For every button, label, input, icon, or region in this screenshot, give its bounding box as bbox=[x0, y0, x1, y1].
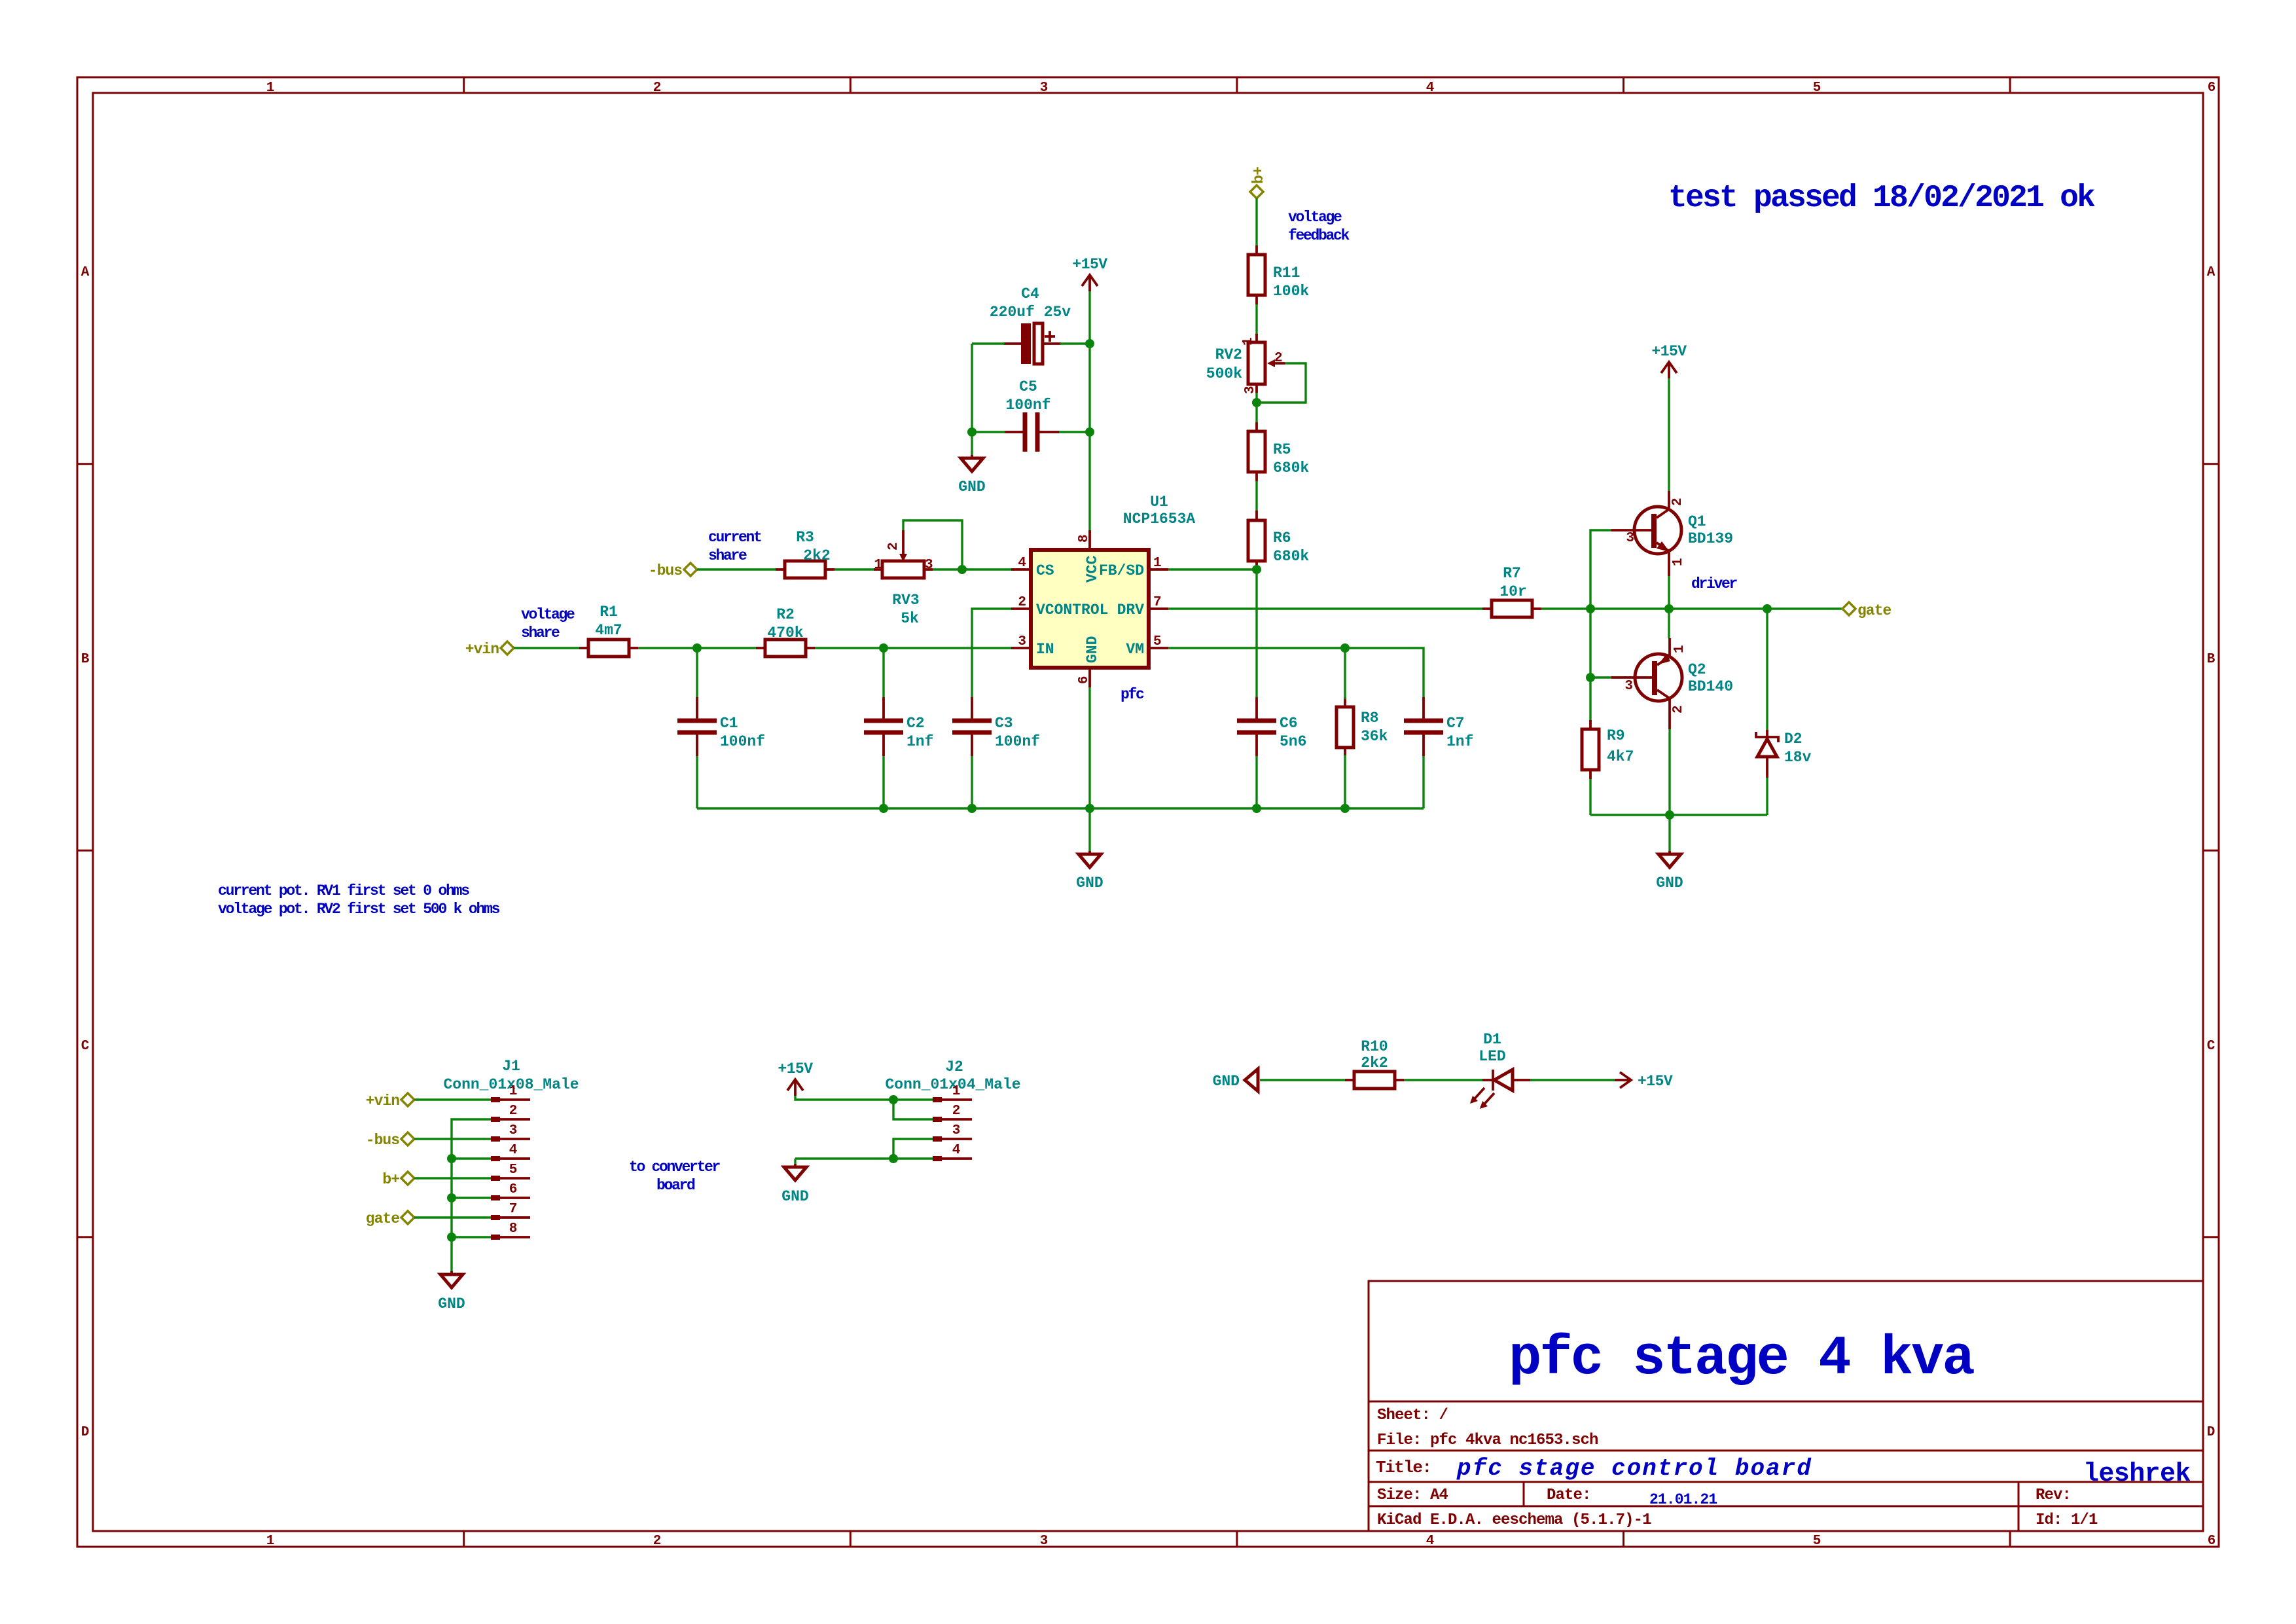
junction C3 bottom bbox=[967, 804, 977, 813]
svg-text:-bus: -bus bbox=[366, 1132, 399, 1149]
svg-text:1: 1 bbox=[1672, 645, 1687, 653]
svg-text:C: C bbox=[81, 1039, 90, 1054]
svg-text:5k: 5k bbox=[901, 610, 919, 627]
ground symbol at J2 bbox=[781, 1164, 808, 1205]
svg-text:Sheet: /: Sheet: / bbox=[1377, 1407, 1448, 1424]
svg-text:2k2: 2k2 bbox=[803, 547, 830, 564]
resistor R9 4k7 bbox=[1582, 720, 1634, 779]
svg-text:b+: b+ bbox=[382, 1171, 399, 1188]
svg-text:5: 5 bbox=[1153, 634, 1162, 649]
svg-text:2: 2 bbox=[1671, 705, 1686, 713]
svg-text:to converter: to converter bbox=[629, 1159, 721, 1176]
wire C1 top lead bbox=[696, 648, 698, 697]
svg-text:C6: C6 bbox=[1280, 715, 1298, 732]
svg-text:B: B bbox=[81, 652, 90, 667]
wire +15V to J2 pin1 bbox=[795, 1096, 933, 1100]
wire RV2 to R5 bbox=[1255, 393, 1257, 422]
svg-text:Rev:: Rev: bbox=[2036, 1487, 2071, 1504]
frame row ticks left bbox=[77, 464, 93, 1237]
ground rail wire bbox=[697, 807, 1424, 809]
junction J2 pin4 bbox=[889, 1154, 898, 1163]
svg-text:BD140: BD140 bbox=[1688, 678, 1733, 695]
svg-text:8: 8 bbox=[1077, 534, 1092, 543]
power symbol +15V right of D1 bbox=[1615, 1072, 1673, 1090]
junction J2 pin1 bbox=[889, 1095, 898, 1104]
svg-text:-bus: -bus bbox=[649, 562, 682, 579]
connector J2 Conn_01x04_Male bbox=[885, 1058, 1020, 1159]
svg-text:VCONTROL: VCONTROL bbox=[1036, 602, 1108, 619]
wire J2 pin2 bbox=[893, 1100, 933, 1119]
svg-text:5: 5 bbox=[1813, 1534, 1821, 1549]
svg-text:3: 3 bbox=[925, 558, 933, 573]
junction Q1 emitter gate bbox=[1664, 604, 1674, 613]
svg-text:C: C bbox=[2207, 1039, 2215, 1054]
resistor R6 680k bbox=[1248, 511, 1309, 569]
ground symbol below U1 bbox=[1076, 851, 1103, 892]
junction driver rail bbox=[1665, 810, 1674, 820]
wire gate line bbox=[1669, 607, 1842, 609]
junction RV2 wiper bbox=[1252, 398, 1261, 407]
svg-text:2: 2 bbox=[952, 1104, 961, 1119]
svg-text:5: 5 bbox=[1813, 81, 1821, 96]
capacitor C3 100nf bbox=[952, 697, 1040, 756]
svg-text:C4: C4 bbox=[1021, 285, 1039, 302]
wire Q2 collector to rail bbox=[1668, 729, 1670, 815]
svg-text:6: 6 bbox=[509, 1182, 518, 1197]
svg-text:R1: R1 bbox=[600, 604, 618, 621]
svg-text:gate: gate bbox=[366, 1210, 399, 1227]
wire rail to GND symbol bbox=[1088, 808, 1090, 851]
wire R8 bottom lead bbox=[1344, 755, 1346, 808]
capacitor C7 1nf bbox=[1404, 697, 1473, 756]
svg-text:680k: 680k bbox=[1273, 460, 1309, 477]
polarized capacitor C4 220uf 25v bbox=[990, 285, 1071, 364]
svg-text:6: 6 bbox=[2208, 1534, 2216, 1549]
global label -bus at J1 bbox=[366, 1132, 414, 1149]
svg-text:voltage: voltage bbox=[521, 606, 575, 623]
svg-text:2: 2 bbox=[509, 1104, 518, 1119]
ground symbol below J1 bbox=[438, 1271, 465, 1312]
junction C5 right bbox=[1085, 427, 1094, 437]
svg-text:C1: C1 bbox=[720, 715, 738, 732]
svg-text:6: 6 bbox=[2208, 81, 2216, 96]
junction C4 right bbox=[1085, 339, 1094, 348]
wire R5 to R6 bbox=[1255, 481, 1257, 511]
junction J1 pin8 bbox=[447, 1233, 456, 1242]
svg-text:D: D bbox=[81, 1425, 90, 1440]
svg-text:3: 3 bbox=[1018, 634, 1026, 649]
svg-text:RV2: RV2 bbox=[1215, 346, 1242, 363]
global label +vin bbox=[465, 641, 514, 658]
svg-text:Date:: Date: bbox=[1547, 1487, 1591, 1504]
svg-text:21.01.21: 21.01.21 bbox=[1649, 1491, 1717, 1508]
wire R7 to bases bbox=[1541, 607, 1669, 609]
wire C7 bottom lead bbox=[1422, 756, 1424, 808]
svg-text:pfc stage 4 kva: pfc stage 4 kva bbox=[1509, 1328, 1974, 1390]
svg-text:100nf: 100nf bbox=[720, 733, 765, 750]
svg-text:VCC: VCC bbox=[1084, 555, 1101, 583]
svg-text:+vin: +vin bbox=[366, 1092, 399, 1110]
svg-text:3: 3 bbox=[1040, 1534, 1049, 1549]
driver ground rail wire bbox=[1590, 814, 1767, 816]
wire J2 pin4 gnd bbox=[795, 1157, 933, 1159]
global label b+ at J1 bbox=[382, 1171, 414, 1188]
svg-text:R2: R2 bbox=[776, 606, 795, 623]
ground symbol left of R10 bbox=[1213, 1069, 1258, 1091]
resistor R2 470k bbox=[756, 606, 815, 657]
svg-text:GND: GND bbox=[781, 1188, 808, 1205]
potentiometer RV3 5k bbox=[874, 530, 933, 627]
note current share bbox=[708, 529, 761, 564]
svg-text:J1: J1 bbox=[502, 1058, 520, 1075]
capacitor C1 100nf bbox=[677, 697, 765, 756]
svg-text:1: 1 bbox=[266, 81, 275, 96]
wire -bus to R3 bbox=[697, 568, 776, 570]
svg-text:GND: GND bbox=[438, 1295, 465, 1312]
svg-text:D2: D2 bbox=[1784, 731, 1803, 748]
svg-text:C7: C7 bbox=[1446, 715, 1465, 732]
svg-text:GND: GND bbox=[958, 478, 985, 496]
svg-text:3: 3 bbox=[952, 1123, 961, 1138]
svg-text:share: share bbox=[708, 547, 747, 564]
svg-text:+15V: +15V bbox=[1638, 1073, 1673, 1090]
wire gate to D2 bbox=[1766, 609, 1768, 730]
svg-text:4: 4 bbox=[1018, 556, 1026, 571]
resistor R3 2k2 bbox=[776, 529, 834, 578]
svg-text:GND: GND bbox=[1076, 875, 1103, 892]
svg-text:3: 3 bbox=[1626, 531, 1634, 546]
wire Q2 emitter from gate bbox=[1668, 609, 1670, 638]
svg-text:GND: GND bbox=[1084, 636, 1101, 663]
wire DRV net bbox=[1168, 607, 1482, 609]
wire C1 bottom lead bbox=[696, 756, 698, 808]
svg-text:4: 4 bbox=[509, 1143, 518, 1158]
svg-text:4k7: 4k7 bbox=[1607, 748, 1634, 765]
svg-text:R11: R11 bbox=[1273, 264, 1300, 281]
svg-text:R10: R10 bbox=[1361, 1038, 1388, 1055]
svg-text:RV3: RV3 bbox=[892, 592, 919, 609]
wire R9 to rail bbox=[1589, 779, 1591, 815]
ground symbol below C5 bbox=[958, 455, 985, 496]
capacitor C5 100nf bbox=[1004, 378, 1060, 452]
svg-text:+vin: +vin bbox=[465, 641, 499, 658]
svg-text:220uf 25v: 220uf 25v bbox=[990, 304, 1071, 321]
svg-text:1: 1 bbox=[1671, 558, 1686, 566]
svg-text:C5: C5 bbox=[1019, 378, 1037, 395]
svg-text:A: A bbox=[81, 265, 90, 280]
svg-text:2: 2 bbox=[1018, 595, 1026, 610]
svg-text:100k: 100k bbox=[1273, 283, 1309, 300]
svg-text:2: 2 bbox=[653, 1534, 662, 1549]
svg-text:10r: 10r bbox=[1499, 583, 1526, 600]
svg-text:pfc: pfc bbox=[1121, 686, 1144, 703]
title block separator lines bbox=[1369, 1401, 2203, 1531]
LED D1 bbox=[1470, 1031, 1532, 1109]
svg-text:FB/SD: FB/SD bbox=[1099, 562, 1144, 579]
wire FB/SD net bbox=[1168, 568, 1257, 570]
IC U1 NCP1653A bbox=[1011, 494, 1195, 687]
resistor R10 2k2 bbox=[1345, 1038, 1404, 1089]
svg-text:B: B bbox=[2207, 652, 2215, 667]
wire R11 to RV2 bbox=[1255, 304, 1257, 334]
svg-text:leshrek: leshrek bbox=[2083, 1460, 2191, 1489]
svg-text:gate: gate bbox=[1857, 602, 1891, 619]
wire -bus to J1 pin3 bbox=[414, 1138, 491, 1140]
svg-text:+15V: +15V bbox=[1072, 256, 1107, 273]
wire rail to driver GND bbox=[1668, 815, 1670, 851]
svg-text:b+: b+ bbox=[1250, 166, 1267, 184]
frame row ticks right bbox=[2203, 464, 2219, 1237]
resistor R1 4m7 bbox=[579, 604, 638, 657]
wire b+ to R11 bbox=[1255, 198, 1257, 245]
resistor R5 680k bbox=[1248, 422, 1309, 481]
svg-text:BD139: BD139 bbox=[1688, 530, 1733, 547]
svg-text:4: 4 bbox=[1426, 1534, 1435, 1549]
wire R3 to RV3 bbox=[834, 568, 874, 570]
svg-text:2k2: 2k2 bbox=[1361, 1055, 1388, 1072]
wire Q2 base to R9 bbox=[1589, 677, 1591, 720]
wire D1 to +15V bbox=[1530, 1079, 1615, 1081]
svg-text:R9: R9 bbox=[1607, 727, 1625, 744]
junction U1 GND at rail bbox=[1085, 804, 1094, 813]
wire +vin to J1 pin1 bbox=[414, 1098, 491, 1100]
potentiometer RV2 500k bbox=[1206, 334, 1285, 394]
svg-text:Size: A4: Size: A4 bbox=[1377, 1487, 1448, 1504]
wire C4 left lead bbox=[972, 342, 1005, 344]
svg-text:board: board bbox=[656, 1177, 695, 1194]
svg-text:CS: CS bbox=[1036, 562, 1054, 579]
svg-text:IN: IN bbox=[1036, 641, 1054, 658]
svg-text:C3: C3 bbox=[995, 715, 1013, 732]
note to converter board bbox=[629, 1159, 721, 1194]
svg-text:File: pfc 4kva nc1653.sch: File: pfc 4kva nc1653.sch bbox=[1377, 1432, 1598, 1449]
svg-text:7: 7 bbox=[509, 1202, 518, 1217]
svg-text:1: 1 bbox=[1153, 556, 1162, 571]
note voltage share bbox=[521, 606, 575, 641]
junction J1 pin4 bbox=[447, 1154, 456, 1163]
svg-text:Q2: Q2 bbox=[1688, 661, 1706, 678]
svg-text:4: 4 bbox=[1426, 81, 1435, 96]
wire C3 bottom lead bbox=[971, 756, 973, 808]
wire R2 to IN pin bbox=[815, 647, 1011, 649]
junction C1 top bbox=[692, 643, 702, 653]
svg-text:Title:: Title: bbox=[1376, 1458, 1431, 1477]
wire R1 to R2 bbox=[638, 647, 756, 649]
svg-text:driver: driver bbox=[1691, 575, 1738, 592]
zener diode D2 18v bbox=[1756, 730, 1812, 778]
wire +vin to R1 bbox=[514, 647, 579, 649]
junction C2 top bbox=[879, 643, 888, 653]
svg-text:+15V: +15V bbox=[1651, 343, 1687, 360]
wire +15V to VCC bbox=[1088, 291, 1090, 530]
junction C6 bottom bbox=[1252, 804, 1261, 813]
wire RV3 wiper loop bbox=[903, 520, 962, 569]
svg-text:NCP1653A: NCP1653A bbox=[1123, 511, 1196, 528]
svg-text:J2: J2 bbox=[945, 1058, 963, 1075]
global label +vin at J1 bbox=[366, 1092, 414, 1110]
wire FB junction down to C6 bbox=[1255, 569, 1257, 697]
junction C5 left bbox=[967, 427, 977, 437]
svg-text:share: share bbox=[521, 624, 560, 641]
svg-text:18v: 18v bbox=[1784, 749, 1812, 766]
svg-text:1nf: 1nf bbox=[906, 733, 933, 750]
svg-text:3: 3 bbox=[1040, 81, 1049, 96]
capacitor C6 5n6 bbox=[1237, 697, 1306, 756]
svg-text:GND: GND bbox=[1656, 875, 1683, 892]
svg-text:1: 1 bbox=[509, 1084, 518, 1099]
svg-text:4m7: 4m7 bbox=[595, 622, 622, 639]
svg-text:GND: GND bbox=[1213, 1073, 1240, 1090]
svg-text:R5: R5 bbox=[1273, 441, 1291, 458]
svg-text:feedback: feedback bbox=[1288, 227, 1350, 244]
junction Q2 base tap bbox=[1586, 673, 1595, 682]
svg-text:8: 8 bbox=[509, 1221, 518, 1236]
frame column ticks top bbox=[464, 77, 2010, 93]
svg-text:pfc stage control board: pfc stage control board bbox=[1456, 1455, 1812, 1482]
svg-text:test passed 18/02/2021 ok: test passed 18/02/2021 ok bbox=[1668, 181, 2095, 216]
junction R8 bottom bbox=[1340, 804, 1350, 813]
wire C2 top lead bbox=[882, 648, 884, 697]
svg-text:2: 2 bbox=[653, 81, 662, 96]
wire J2 gnd drop bbox=[794, 1159, 796, 1164]
svg-text:2: 2 bbox=[886, 542, 901, 550]
svg-text:36k: 36k bbox=[1361, 728, 1388, 745]
svg-text:R8: R8 bbox=[1361, 710, 1379, 727]
wire RV3 to CS pin bbox=[933, 568, 1011, 570]
transistor Q1 BD139 bbox=[1611, 491, 1733, 576]
wire C5 right lead bbox=[1059, 431, 1090, 433]
wire C6 to gnd rail bbox=[1255, 756, 1257, 808]
svg-text:470k: 470k bbox=[767, 624, 803, 641]
svg-text:U1: U1 bbox=[1150, 494, 1168, 511]
junction C2 bottom bbox=[879, 804, 888, 813]
wire +15V to Q1 collector bbox=[1668, 378, 1670, 491]
wire C2 bottom lead bbox=[882, 756, 884, 808]
junction D2 top bbox=[1763, 604, 1772, 613]
svg-text:LED: LED bbox=[1479, 1048, 1505, 1065]
wire C4 left to C5 left bbox=[971, 344, 973, 432]
svg-text:DRV: DRV bbox=[1117, 602, 1145, 619]
svg-text:current pot. RV1 first set 0 o: current pot. RV1 first set 0 ohms bbox=[218, 882, 469, 899]
wire VM net bbox=[1168, 648, 1424, 697]
svg-text:2: 2 bbox=[1670, 497, 1685, 506]
frame column ticks bottom bbox=[464, 1531, 2010, 1547]
svg-text:6: 6 bbox=[1077, 676, 1092, 684]
svg-text:A: A bbox=[2207, 265, 2215, 280]
global label b+ bbox=[1250, 166, 1267, 198]
junction base tap bbox=[1586, 604, 1595, 613]
wire R8 top lead bbox=[1344, 648, 1346, 699]
svg-text:3: 3 bbox=[1624, 679, 1633, 694]
wire base riser Q1 bbox=[1590, 530, 1611, 609]
svg-text:1: 1 bbox=[1241, 337, 1256, 346]
svg-text:+15V: +15V bbox=[778, 1060, 813, 1077]
svg-text:5n6: 5n6 bbox=[1280, 733, 1306, 750]
svg-text:3: 3 bbox=[509, 1123, 518, 1138]
wire D2 to rail bbox=[1766, 778, 1768, 815]
wire b+ to J1 pin5 bbox=[414, 1177, 491, 1179]
svg-text:100nf: 100nf bbox=[1005, 397, 1050, 414]
power symbol +15V above Q1 bbox=[1651, 343, 1687, 378]
svg-text:5: 5 bbox=[509, 1163, 518, 1178]
wire base riser Q2 bbox=[1590, 609, 1611, 677]
note voltage feedback bbox=[1288, 209, 1350, 244]
wire GND to R10 bbox=[1260, 1079, 1345, 1081]
svg-text:4: 4 bbox=[952, 1143, 961, 1158]
global label -bus bbox=[649, 562, 697, 579]
svg-text:D: D bbox=[2207, 1425, 2215, 1440]
svg-text:7: 7 bbox=[1153, 595, 1162, 610]
svg-text:500k: 500k bbox=[1206, 365, 1242, 382]
resistor R7 10r bbox=[1482, 565, 1541, 617]
svg-text:1: 1 bbox=[266, 1534, 275, 1549]
svg-text:1nf: 1nf bbox=[1446, 733, 1473, 750]
wire Q1 emitter to gate line bbox=[1668, 576, 1670, 609]
wire U1 GND pin down bbox=[1088, 687, 1090, 808]
svg-text:1: 1 bbox=[874, 558, 882, 573]
junction CS bbox=[958, 565, 967, 574]
wire J1 ground bus bbox=[452, 1119, 491, 1271]
wire C5 left to GND bbox=[971, 432, 973, 455]
global label gate bbox=[1842, 602, 1891, 619]
svg-text:R7: R7 bbox=[1503, 565, 1521, 582]
wire VCONTROL to C3 bbox=[972, 609, 1011, 697]
svg-text:VM: VM bbox=[1126, 641, 1144, 658]
svg-text:C2: C2 bbox=[906, 715, 925, 732]
junction R8 top bbox=[1340, 643, 1350, 653]
svg-text:R6: R6 bbox=[1273, 530, 1291, 547]
connector J1 Conn_01x08_Male bbox=[443, 1058, 579, 1237]
wire J2 pin3 bbox=[893, 1139, 933, 1159]
resistor R8 36k bbox=[1336, 697, 1388, 756]
wire R10 to D1 bbox=[1404, 1079, 1482, 1081]
title block outline bbox=[1369, 1281, 2203, 1531]
svg-text:KiCad E.D.A. eeschema (5.1.7): KiCad E.D.A. eeschema (5.1.7)-1 bbox=[1377, 1511, 1651, 1529]
svg-text:voltage: voltage bbox=[1288, 209, 1342, 226]
junction J1 pin6 bbox=[447, 1193, 456, 1202]
junction FB/SD bbox=[1252, 565, 1261, 574]
wire C4 right lead bbox=[1060, 342, 1090, 344]
svg-text:2: 2 bbox=[1274, 351, 1283, 366]
svg-text:Id: 1/1: Id: 1/1 bbox=[2036, 1511, 2098, 1529]
svg-text:R3: R3 bbox=[796, 529, 814, 546]
svg-text:current: current bbox=[708, 529, 761, 546]
transistor Q2 BD140 bbox=[1611, 638, 1733, 729]
wire RV2 wiper loop bbox=[1257, 363, 1306, 403]
svg-text:voltage pot. RV2 first set 500: voltage pot. RV2 first set 500 k ohms bbox=[218, 901, 500, 918]
ground symbol driver bbox=[1656, 851, 1683, 892]
svg-text:1: 1 bbox=[952, 1084, 961, 1099]
wire gate to J1 pin7 bbox=[414, 1216, 491, 1218]
svg-text:Q1: Q1 bbox=[1688, 513, 1706, 530]
svg-text:680k: 680k bbox=[1273, 548, 1309, 565]
svg-text:D1: D1 bbox=[1483, 1031, 1501, 1048]
svg-text:100nf: 100nf bbox=[995, 733, 1040, 750]
power symbol +15V at J2 bbox=[778, 1060, 813, 1096]
resistor R11 100k bbox=[1248, 245, 1309, 304]
capacitor C2 1nf bbox=[864, 697, 933, 756]
power symbol +15V above C4 bbox=[1072, 256, 1107, 291]
global label gate at J1 bbox=[366, 1210, 414, 1227]
wire C5 left lead bbox=[972, 431, 1005, 433]
